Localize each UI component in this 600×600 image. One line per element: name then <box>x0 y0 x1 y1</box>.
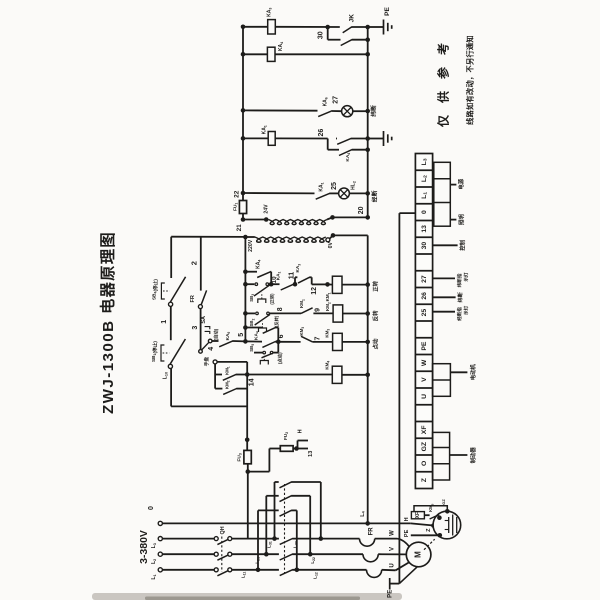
svg-text:GZ: GZ <box>421 442 428 451</box>
svg-text:(正转): (正转) <box>269 293 276 305</box>
svg-text:ZWJ-1300B 电器原理图: ZWJ-1300B 电器原理图 <box>99 231 117 414</box>
svg-text:1: 1 <box>161 320 168 324</box>
svg-text:9: 9 <box>314 308 321 312</box>
svg-text:14: 14 <box>249 378 256 386</box>
svg-text:7: 7 <box>314 337 321 341</box>
svg-text:27: 27 <box>421 275 428 283</box>
svg-text:0: 0 <box>148 506 155 510</box>
svg-text:PE: PE <box>384 7 391 16</box>
svg-text:(点动): (点动) <box>277 352 284 364</box>
svg-text:反转: 反转 <box>371 310 379 321</box>
svg-text:照明: 照明 <box>457 214 465 225</box>
svg-text:示灯: 示灯 <box>463 305 470 315</box>
svg-text:控制: 控制 <box>458 239 466 250</box>
svg-text:点动: 点动 <box>371 338 379 349</box>
svg-text:12: 12 <box>311 287 318 295</box>
svg-text:JK: JK <box>349 14 356 23</box>
svg-text:25: 25 <box>421 309 428 317</box>
svg-text:27: 27 <box>333 96 340 104</box>
svg-text:仅供参考: 仅供参考 <box>435 31 450 128</box>
svg-text:22: 22 <box>234 190 241 198</box>
svg-text:V: V <box>421 377 428 382</box>
svg-text:XF: XF <box>415 512 421 518</box>
svg-text:XF: XF <box>421 426 428 435</box>
svg-text:纬断指: 纬断指 <box>456 273 463 287</box>
svg-text:电源: 电源 <box>457 178 465 189</box>
svg-text:SA: SA <box>201 316 207 324</box>
svg-text:26: 26 <box>421 292 428 300</box>
svg-text:(反转): (反转) <box>273 315 280 327</box>
svg-text:U: U <box>421 394 428 399</box>
svg-text:制动器: 制动器 <box>469 447 477 464</box>
svg-text:FR: FR <box>190 295 196 302</box>
svg-text:0: 0 <box>421 210 428 214</box>
svg-text:GZ: GZ <box>441 499 446 505</box>
svg-text:V: V <box>390 547 396 551</box>
svg-text:M: M <box>414 551 423 558</box>
svg-text:6: 6 <box>278 334 285 338</box>
svg-text:示灯: 示灯 <box>463 272 470 282</box>
svg-text:QH: QH <box>220 526 226 534</box>
svg-text:FR: FR <box>368 527 374 536</box>
svg-text:30: 30 <box>421 242 428 250</box>
svg-text:H: H <box>404 517 410 521</box>
svg-text:经断指: 经断指 <box>456 307 463 321</box>
svg-text:纬断: 纬断 <box>456 291 464 302</box>
svg-text:U: U <box>390 563 396 567</box>
svg-text:13: 13 <box>421 225 428 233</box>
svg-text:Z: Z <box>421 478 428 482</box>
svg-text:20: 20 <box>358 206 365 214</box>
svg-text:L4: L4 <box>360 510 366 516</box>
svg-text:PE: PE <box>387 590 393 598</box>
svg-text:H: H <box>298 429 304 433</box>
svg-text:0V: 0V <box>328 241 334 248</box>
svg-text:5: 5 <box>238 333 245 337</box>
svg-text:线路如有改动，不另行通知: 线路如有改动，不另行通知 <box>466 35 475 125</box>
svg-text:25: 25 <box>331 182 338 190</box>
svg-text:220V: 220V <box>248 239 254 252</box>
svg-text:W: W <box>390 530 396 536</box>
svg-text:O: O <box>421 461 428 466</box>
svg-text:4: 4 <box>208 347 215 351</box>
svg-text:PE: PE <box>404 529 410 537</box>
svg-text:3-380V: 3-380V <box>138 530 150 564</box>
svg-text:2: 2 <box>190 261 199 265</box>
svg-text:W: W <box>421 359 428 366</box>
svg-text:3: 3 <box>192 326 199 330</box>
svg-text:(自动): (自动) <box>213 328 220 340</box>
svg-text:13: 13 <box>308 450 314 457</box>
svg-text:30: 30 <box>317 31 324 39</box>
svg-text:电动机: 电动机 <box>469 364 477 381</box>
svg-text:24V: 24V <box>263 204 269 214</box>
svg-text:8: 8 <box>277 307 284 311</box>
svg-text:经断: 经断 <box>371 190 379 202</box>
svg-text:21: 21 <box>236 224 243 232</box>
svg-text:手盘: 手盘 <box>203 357 210 367</box>
svg-text:26: 26 <box>318 129 325 137</box>
svg-text:正转: 正转 <box>371 280 379 291</box>
svg-text:PE: PE <box>421 341 428 351</box>
svg-text:纬断: 纬断 <box>370 105 378 117</box>
